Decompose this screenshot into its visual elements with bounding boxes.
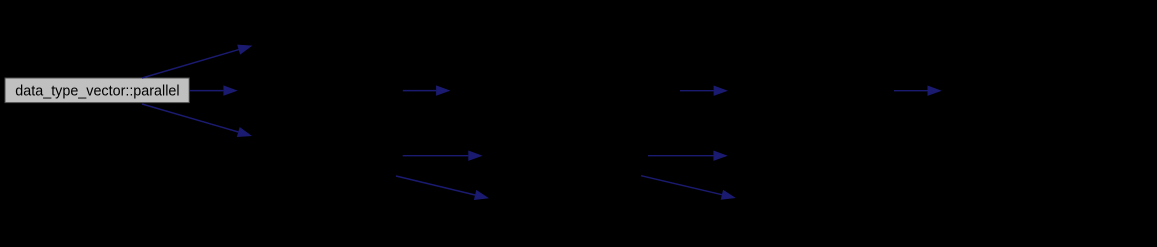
- wire edge A10: [894, 86, 942, 96]
- wire edge A4: [403, 85, 451, 95]
- wire edge A2: [190, 85, 238, 95]
- wire edge A7: [680, 86, 728, 96]
- wire edge A3: [142, 104, 252, 137]
- svg-text:data_type_vector::parallel: data_type_vector::parallel: [15, 83, 179, 99]
- wire edge A5: [403, 151, 483, 161]
- wire edge A1: [142, 45, 252, 78]
- wire edge A8: [648, 151, 728, 161]
- wire edge A6: [396, 176, 489, 200]
- node data_type_vector::parallel: [5, 78, 189, 103]
- wire edge A9: [641, 176, 736, 200]
